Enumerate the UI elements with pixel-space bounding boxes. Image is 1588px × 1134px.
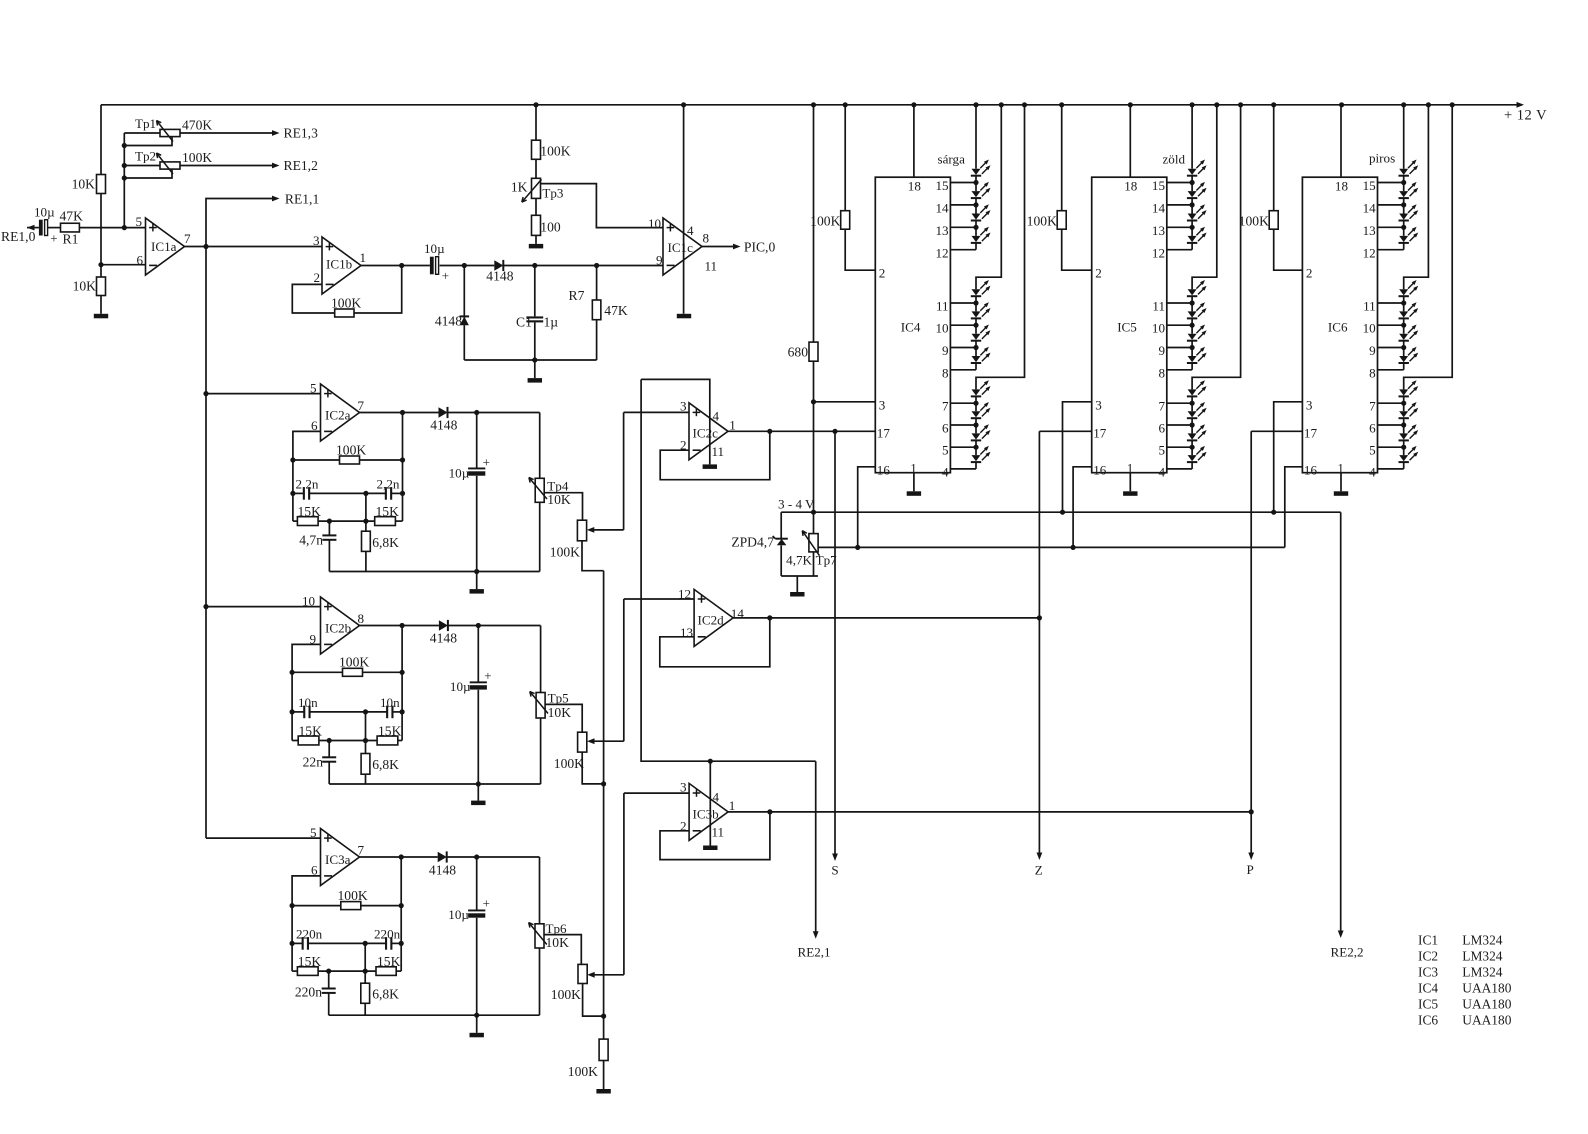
node RE1,0 output arrow (27, 227, 39, 229)
svg-text:7: 7 (358, 843, 365, 858)
svg-text:17: 17 (1093, 426, 1107, 441)
wire S output (834, 431, 836, 858)
LED IC6 group2 #3 (1399, 334, 1408, 340)
op-amp IC1c (663, 218, 702, 275)
wire caps row (309, 492, 386, 494)
wire IC6 pin stub row 6 (1378, 347, 1404, 349)
svg-text:zöld: zöld (1163, 152, 1186, 167)
capacitor 10u IC2b (477, 626, 479, 683)
wire IC6 pin18 to rail (1340, 105, 1342, 177)
svg-text:IC3a: IC3a (325, 852, 351, 867)
resistor 6,8K IC2b (365, 712, 367, 754)
wire IC4 pin stub row 0 (950, 182, 976, 184)
svg-text:RE2,2: RE2,2 (1331, 945, 1364, 960)
wire IC5 pin stub row 10 (1167, 446, 1192, 448)
wire IC6 pin stub row 0 (1378, 182, 1404, 184)
wire IC3b + input (624, 792, 689, 794)
svg-text:6,8K: 6,8K (372, 987, 399, 1002)
resistor 15K left IC2a (293, 520, 298, 522)
svg-text:IC1b: IC1b (326, 257, 353, 272)
svg-text:1K: 1K (511, 180, 528, 195)
svg-text:12: 12 (1152, 245, 1165, 260)
svg-text:Tp5: Tp5 (548, 691, 570, 706)
wire IC3b output to P node (728, 811, 1251, 813)
diode 4148 IC3a (438, 852, 447, 863)
LED IC4 group3 #1 (972, 389, 981, 395)
svg-text:P: P (1247, 862, 1254, 877)
svg-text:12: 12 (1363, 245, 1376, 260)
svg-text:7: 7 (358, 398, 365, 413)
svg-text:8: 8 (703, 231, 710, 246)
svg-text:100K: 100K (1027, 214, 1057, 229)
svg-text:9: 9 (1369, 343, 1376, 358)
wire to IC3a + input (206, 837, 321, 839)
ground IC2a (476, 572, 478, 590)
LED IC6 group2 #1 (1399, 289, 1408, 295)
svg-text:RE1,2: RE1,2 (284, 158, 319, 173)
LED IC6 group1 #3 (1399, 214, 1408, 220)
svg-text:5: 5 (310, 381, 317, 396)
wire IC4 pin3 (814, 401, 876, 403)
wire IC5 pin stub row 9 (1167, 424, 1192, 426)
svg-text:4: 4 (942, 464, 949, 479)
resistor 680 (813, 105, 815, 342)
wire IC6 pin stub row 8 (1378, 402, 1404, 404)
wire pot bottom to bus (582, 541, 604, 571)
wire R1 to IC1a + (79, 227, 145, 229)
wire IC2c power pin4 (641, 379, 710, 464)
svg-text:220n: 220n (296, 927, 323, 942)
wire pot wiper to IC2d + (623, 599, 625, 741)
capacitor 10u IC3a (476, 857, 478, 911)
wire IC2d + input (624, 598, 694, 600)
svg-text:22n: 22n (303, 755, 324, 770)
potentiometer 100K IC3a (578, 964, 587, 983)
capacitor 4,7n (328, 521, 330, 535)
LED IC6 group3 #1 (1399, 389, 1408, 395)
wire bus IC1a out down (205, 247, 207, 839)
svg-text:680: 680 (788, 345, 809, 360)
wire IC4 pin stub row 11 (950, 468, 976, 470)
wire 15K row IC3a (318, 970, 376, 972)
capacitor 2,2n right (385, 487, 387, 500)
svg-text:4148: 4148 (429, 862, 456, 877)
svg-text:7: 7 (942, 399, 949, 414)
svg-text:10µ: 10µ (450, 679, 471, 694)
IC box IC5 (1092, 177, 1167, 473)
LED IC4 group2 #3 (972, 334, 981, 340)
svg-text:15: 15 (936, 178, 950, 193)
wire IC5 pin stub row 7 (1167, 369, 1192, 371)
svg-text:9: 9 (1158, 343, 1165, 358)
diode 4148 IC2b (439, 620, 448, 631)
wire IC4 pin stub row 10 (950, 446, 976, 448)
LED IC5 group3 #4 (1188, 455, 1197, 461)
svg-text:11: 11 (1152, 299, 1165, 314)
svg-text:10µ: 10µ (424, 241, 445, 256)
LED IC5 group2 #2 (1188, 311, 1197, 317)
svg-text:15K: 15K (377, 954, 401, 969)
wire IC3a bottom (329, 1014, 540, 1016)
LED IC5 group2 #1 (1188, 289, 1197, 295)
svg-text:10K: 10K (546, 935, 570, 950)
svg-text:C1: C1 (516, 315, 532, 330)
IC box IC6 (1302, 177, 1377, 473)
wire IC2b - input loop (292, 644, 320, 740)
svg-text:IC2a: IC2a (325, 408, 351, 423)
svg-text:1: 1 (729, 418, 736, 433)
svg-text:4148: 4148 (486, 268, 513, 283)
svg-text:IC2c: IC2c (693, 426, 719, 441)
wire pot bus vertical (603, 571, 605, 1039)
wire pot bottom to bus IC3a (583, 984, 604, 1017)
svg-text:3: 3 (1306, 398, 1313, 413)
diode 4148 IC2a (439, 407, 448, 418)
wire IC4 pin1 ground (913, 473, 915, 492)
wire IC2c - feedback loop (660, 431, 770, 479)
wire IC2a - input loop (293, 431, 321, 521)
LED IC6 group3 #4 (1399, 455, 1408, 461)
LED IC6 group1 #4 (1399, 236, 1408, 242)
wire rail corner down left (100, 105, 102, 175)
svg-text:UAA180: UAA180 (1462, 980, 1511, 995)
wire IC6 LED chain group3 feed (1404, 105, 1453, 390)
svg-text:2: 2 (879, 266, 886, 281)
svg-text:+: + (50, 231, 57, 246)
svg-text:100K: 100K (810, 214, 840, 229)
resistor R7 47K (596, 266, 598, 301)
wire IC5 pin stub row 4 (1167, 302, 1192, 304)
svg-text:18: 18 (1335, 179, 1349, 194)
LED IC5 group1 #4 (1188, 236, 1197, 242)
svg-text:UAA180: UAA180 (1462, 996, 1511, 1011)
wire IC5 pin stub row 8 (1167, 402, 1192, 404)
ground IC5 pin1 (1123, 491, 1137, 496)
capacitor 220n bottom (328, 971, 330, 988)
svg-text:+ 12 V: + 12 V (1504, 108, 1547, 124)
svg-text:Tp1: Tp1 (135, 116, 156, 131)
wire IC3b - feedback loop (660, 812, 770, 860)
wire to IC1a - input (101, 264, 146, 266)
wire IC1b output (361, 265, 430, 267)
wire IC4 pin stub row 8 (950, 402, 976, 404)
wire 15K row (318, 520, 375, 522)
svg-text:3: 3 (680, 399, 687, 414)
resistor R1 47K (61, 223, 80, 232)
svg-text:3 - 4 V: 3 - 4 V (778, 497, 815, 512)
resistor 15K right IC3a (376, 967, 396, 976)
svg-text:9: 9 (656, 253, 663, 268)
capacitor C1 1u (534, 266, 536, 317)
svg-text:7: 7 (1369, 399, 1376, 414)
capacitor 10u series IC1b (430, 257, 434, 275)
power rail +12 V (101, 104, 1522, 106)
resistor 100K IC6 pin2 (1273, 105, 1275, 211)
svg-text:6,8K: 6,8K (372, 757, 399, 772)
ground IC2c pin11 (703, 464, 717, 469)
wire P output (1250, 431, 1252, 857)
svg-text:6: 6 (942, 421, 949, 436)
svg-text:100K: 100K (331, 296, 361, 311)
svg-text:11: 11 (712, 825, 725, 840)
resistor 100K IC2b feedback (292, 671, 342, 673)
wire to RE2,1 (815, 761, 817, 936)
svg-text:10: 10 (1363, 321, 1377, 336)
svg-text:4,7n: 4,7n (299, 533, 323, 548)
svg-text:5: 5 (1158, 443, 1165, 458)
LED IC6 group2 #4 (1399, 356, 1408, 362)
wire IC2b bottom (329, 783, 540, 785)
zener diode ZPD4,7 (780, 512, 782, 539)
wire IC5 pin17 (1039, 430, 1091, 432)
wire IC6 pin1 ground (1340, 473, 1342, 492)
op-amp IC3a (321, 829, 360, 886)
svg-text:16: 16 (1304, 463, 1318, 478)
wire to ground (100, 296, 102, 314)
ground zener box (796, 576, 798, 592)
resistor 15K right IC2a (375, 517, 396, 526)
svg-text:IC2b: IC2b (325, 621, 352, 636)
svg-text:IC6: IC6 (1418, 1012, 1438, 1027)
ground IC4 pin1 (907, 491, 921, 496)
svg-text:IC1c: IC1c (668, 240, 694, 255)
resistor 100K IC3a feedback (292, 905, 341, 907)
trimmer Tp5 10K (540, 626, 542, 693)
svg-text:15K: 15K (378, 724, 402, 739)
LED IC5 group3 #2 (1188, 411, 1197, 417)
op-amp IC1b (322, 237, 361, 294)
svg-text:LM324: LM324 (1462, 964, 1502, 979)
svg-text:9: 9 (942, 343, 949, 358)
wire IC4 pin stub row 1 (950, 204, 976, 206)
wire IC5 pin stub row 6 (1167, 347, 1192, 349)
svg-text:18: 18 (1124, 179, 1138, 194)
wire IC5 pin1 ground (1129, 473, 1131, 492)
svg-text:10µ: 10µ (449, 466, 470, 481)
resistor 100K IC5 pin2 (1061, 105, 1063, 211)
resistor 10K upper (97, 175, 106, 194)
svg-text:15K: 15K (298, 504, 322, 519)
capacitor 22n (328, 741, 330, 758)
wire IC2c output to IC4 pin17 (728, 430, 875, 432)
svg-text:10µ: 10µ (34, 205, 55, 220)
svg-text:6: 6 (137, 253, 144, 268)
wire to IC2a + input (206, 393, 321, 395)
wire IC6 pin stub row 2 (1378, 226, 1404, 228)
svg-text:+: + (483, 896, 490, 911)
LED IC4 group2 #2 (972, 311, 981, 317)
ground IC3b pin11 (703, 846, 717, 851)
svg-text:16: 16 (877, 463, 891, 478)
svg-text:ZPD4,7: ZPD4,7 (731, 535, 774, 550)
svg-text:100K: 100K (338, 888, 368, 903)
svg-text:3: 3 (313, 233, 320, 248)
resistor 100K Tp3 chain (532, 140, 541, 159)
svg-text:100K: 100K (1239, 214, 1269, 229)
wire IC4 pin stub row 2 (950, 226, 976, 228)
wire IC2a output (360, 412, 439, 414)
svg-text:8: 8 (942, 365, 949, 380)
svg-text:13: 13 (680, 625, 694, 640)
LED IC5 group1 #1 (1188, 169, 1197, 175)
svg-text:6: 6 (1369, 421, 1376, 436)
LED IC4 group3 #4 (972, 455, 981, 461)
LED IC4 group3 #2 (972, 411, 981, 417)
wire to RE1,1 (206, 199, 277, 247)
svg-text:piros: piros (1369, 151, 1395, 166)
LED IC5 group2 #4 (1188, 356, 1197, 362)
svg-text:2: 2 (314, 270, 321, 285)
wire IC4 pin stub row 6 (950, 347, 976, 349)
svg-text:14: 14 (1152, 201, 1166, 216)
wire IC6 pin stub row 11 (1378, 468, 1404, 470)
wire to diode (440, 265, 495, 267)
svg-text:sárga: sárga (938, 152, 966, 167)
wire pot bottom to bus IC2b (582, 752, 603, 784)
svg-text:+: + (442, 268, 449, 283)
svg-text:IC3: IC3 (1418, 964, 1438, 979)
svg-text:IC2: IC2 (1418, 948, 1438, 963)
svg-text:IC1: IC1 (1418, 932, 1438, 947)
resistor 100 Tp3 chain (532, 215, 541, 235)
trimmer Tp4 10K (539, 413, 541, 479)
resistor 15K right IC2b (377, 736, 398, 745)
wire IC2d - feedback loop (660, 618, 770, 667)
svg-text:2,2n: 2,2n (377, 477, 400, 492)
svg-text:100K: 100K (550, 545, 580, 560)
wire IC4 LED chain group3 feed (976, 105, 1025, 390)
svg-text:2: 2 (1095, 266, 1102, 281)
wire IC1b - feedback (292, 284, 334, 313)
svg-text:8: 8 (1369, 365, 1376, 380)
svg-text:4: 4 (687, 223, 694, 238)
wire IC5 LED chain group3 feed (1192, 105, 1241, 390)
wire IC4 pin stub row 7 (950, 369, 976, 371)
svg-text:7: 7 (1158, 399, 1165, 414)
svg-text:11: 11 (712, 444, 725, 459)
wire IC3b pin4 drop (709, 761, 711, 845)
svg-text:IC5: IC5 (1418, 996, 1438, 1011)
LED IC4 group1 #4 (972, 236, 981, 242)
svg-text:Tp3: Tp3 (542, 185, 564, 200)
wire IC3a output (360, 856, 438, 858)
LED IC4 group1 #2 (972, 191, 981, 197)
LED IC6 group1 #2 (1399, 191, 1408, 197)
resistor 100K bottom (599, 1039, 608, 1060)
ground (94, 314, 108, 319)
wire IC1a output (185, 246, 323, 248)
svg-text:IC6: IC6 (1328, 320, 1348, 335)
svg-text:15K: 15K (299, 724, 323, 739)
svg-text:RE1,1: RE1,1 (285, 191, 319, 206)
wire IC4 pin stub row 3 (950, 249, 976, 251)
wire IC4 pin stub row 4 (950, 302, 976, 304)
svg-text:100K: 100K (540, 144, 570, 159)
svg-text:10n: 10n (380, 695, 400, 710)
svg-text:100K: 100K (568, 1064, 598, 1079)
svg-text:8: 8 (1158, 365, 1165, 380)
wire 15K row IC2b (319, 740, 377, 742)
wire diode to IC1c - (503, 265, 663, 267)
capacitor 220n left (292, 942, 303, 944)
LED IC4 group3 #3 (972, 433, 981, 439)
ground IC1c pin11 (677, 314, 691, 319)
svg-text:IC4: IC4 (1418, 980, 1438, 995)
wire IC6 pin3 to ref (1274, 402, 1303, 512)
wire Tp5 to pot (545, 704, 582, 732)
ground bottom 100K (596, 1089, 610, 1094)
svg-text:1: 1 (729, 798, 736, 813)
svg-text:7: 7 (184, 231, 191, 246)
wire to RE1,3 (180, 132, 277, 134)
svg-text:RE1,3: RE1,3 (284, 125, 319, 140)
svg-text:+: + (483, 455, 490, 470)
capacitor 10u IC2a (476, 413, 478, 470)
svg-text:4148: 4148 (430, 418, 457, 433)
resistor 100K IC1b feedback (335, 309, 354, 317)
svg-text:3: 3 (879, 398, 886, 413)
wire zener box bottom (781, 575, 818, 577)
wire IC5 LED chain group1 feed (1191, 105, 1193, 169)
wire IC1c output to PIC,0 (702, 246, 738, 248)
op-amp IC2a (321, 384, 360, 441)
wire IC5 pin3 to ref (1063, 402, 1092, 512)
resistor 15K left IC3a (292, 970, 297, 972)
svg-text:1µ: 1µ (544, 315, 559, 330)
svg-text:IC2d: IC2d (698, 613, 725, 628)
wire IC1c power pin4 pin11 (683, 105, 685, 314)
wire Z output (1038, 431, 1040, 857)
wire IC6 LED chain group2 feed (1404, 105, 1429, 289)
wire IC6 pin stub row 4 (1378, 302, 1404, 304)
svg-text:11: 11 (705, 259, 718, 274)
svg-text:5: 5 (136, 214, 143, 229)
wire Tp3 wiper to IC1c + (541, 184, 664, 228)
svg-text:220n: 220n (374, 927, 401, 942)
svg-text:16: 16 (1093, 463, 1107, 478)
ground C1 (534, 360, 536, 378)
wire IC5 pin stub row 3 (1167, 249, 1192, 251)
svg-text:Tp2: Tp2 (135, 149, 156, 164)
wire to IC2b + input (206, 606, 321, 608)
LED IC4 group2 #1 (972, 289, 981, 295)
wire to RE2,2 (1340, 512, 1342, 935)
svg-text:6,8K: 6,8K (372, 535, 399, 550)
wire IC4 LED chain group1 feed (975, 105, 977, 169)
svg-text:100K: 100K (554, 756, 584, 771)
svg-text:12: 12 (936, 245, 949, 260)
svg-text:LM324: LM324 (1462, 932, 1502, 947)
svg-text:100K: 100K (336, 443, 366, 458)
svg-text:470K: 470K (182, 118, 212, 133)
svg-text:S: S (831, 863, 838, 878)
wire pot wiper to IC3b + (623, 793, 625, 975)
svg-text:10K: 10K (548, 705, 572, 720)
svg-text:11: 11 (1363, 299, 1376, 314)
svg-text:+: + (484, 668, 491, 683)
resistor 100K IC2a feedback (293, 459, 340, 461)
svg-text:100: 100 (540, 220, 561, 235)
capacitor 220n right (385, 937, 387, 950)
resistor 6,8K IC3a (364, 943, 366, 983)
wire Tp bus vertical (123, 133, 125, 228)
svg-text:13: 13 (936, 223, 950, 238)
trimmer Tp6 10K (539, 857, 541, 924)
wire IC4 pin stub row 5 (950, 324, 976, 326)
wire IC6 pin17 (1251, 430, 1302, 432)
wire IC6 pin stub row 5 (1378, 324, 1404, 326)
wire cap to R1 (48, 227, 61, 229)
